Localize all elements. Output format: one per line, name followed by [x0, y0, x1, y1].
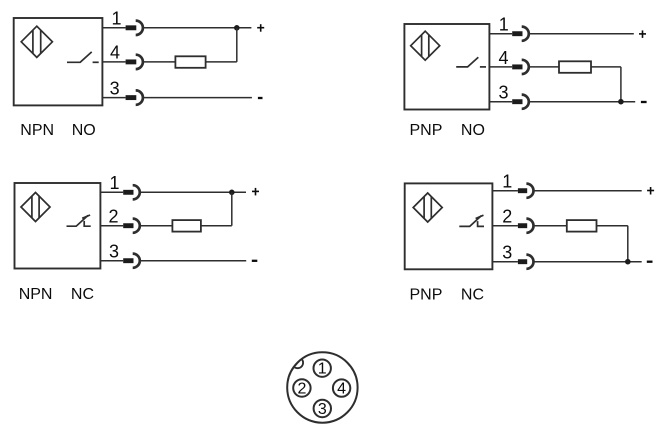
- load resistor (NPN NC): [172, 220, 201, 232]
- NO switch contact (PNP NO): [456, 57, 486, 67]
- connector plug pin1 (PNP NC): [518, 188, 527, 193]
- wire pin4 to load (PNP NO): [529, 66, 559, 68]
- svg-text:1: 1: [318, 361, 327, 378]
- svg-text:NC: NC: [461, 287, 484, 304]
- minus terminal (PNP NC): [647, 261, 653, 263]
- svg-text:3: 3: [318, 401, 327, 418]
- wire pin4 to load (NPN NO): [143, 61, 176, 63]
- wire load to vertical (PNP NO): [591, 66, 621, 68]
- wire pin1 stub (PNP NC): [492, 190, 518, 192]
- svg-text:3: 3: [498, 83, 508, 103]
- svg-text:3: 3: [502, 242, 512, 262]
- svg-text:NC: NC: [71, 286, 94, 303]
- wire pin1 to + (NPN NO): [143, 27, 252, 29]
- svg-text:3: 3: [109, 241, 119, 261]
- wire pin2 to load (PNP NC): [534, 225, 567, 227]
- connector socket arc pin4 (PNP NO): [522, 60, 529, 74]
- sensor body box (PNP NC): [405, 183, 493, 269]
- minus terminal (NPN NC): [252, 260, 257, 262]
- connector plug pin1 (NPN NO): [126, 25, 137, 30]
- connector socket arc pin1 (PNP NO): [522, 27, 529, 41]
- plus terminal (NPN NO): [257, 24, 264, 32]
- wire pin4 stub (PNP NO): [489, 66, 512, 68]
- wire pin4 stub (NPN NO): [102, 61, 125, 63]
- svg-text:3: 3: [110, 78, 120, 98]
- load resistor (NPN NO): [175, 56, 205, 68]
- connector face outer circle: [287, 352, 357, 422]
- wire pin3 stub (PNP NO): [489, 101, 512, 103]
- svg-text:NPN: NPN: [20, 122, 54, 139]
- proximity sensor diamond symbol (PNP NC): [413, 193, 442, 222]
- wire pin1 to + (NPN NC): [140, 191, 246, 193]
- svg-text:2: 2: [502, 207, 512, 227]
- connector socket arc pin1 (PNP NC): [526, 184, 533, 198]
- connector plug pin3 (PNP NO): [512, 99, 522, 104]
- sensor body box (NPN NC): [15, 183, 101, 269]
- connector pin 1 circle: [314, 360, 331, 377]
- NC switch contact (PNP NC): [459, 215, 484, 226]
- svg-text:4: 4: [337, 381, 346, 398]
- connector pin 4 circle: [333, 379, 350, 396]
- vertical wire load to - rail (PNP NO): [620, 67, 622, 102]
- svg-text:NO: NO: [72, 122, 96, 139]
- connector plug pin4 (PNP NO): [512, 64, 522, 69]
- connector plug pin3 (PNP NC): [518, 259, 527, 264]
- connector pin 2 circle: [293, 379, 310, 396]
- connector pin 3 circle: [314, 400, 331, 417]
- connector socket arc pin1 (NPN NC): [133, 185, 140, 199]
- wire pin2 stub (PNP NC): [492, 225, 518, 227]
- connector socket arc pin1 (NPN NO): [136, 21, 143, 35]
- connector socket arc pin3 (NPN NO): [136, 90, 143, 104]
- wire pin2 stub (NPN NC): [100, 225, 123, 227]
- wire load to vertical (NPN NC): [201, 225, 232, 227]
- plus terminal (NPN NC): [252, 188, 259, 196]
- svg-text:1: 1: [111, 9, 121, 29]
- connector plug pin3 (NPN NC): [123, 258, 133, 263]
- connector socket arc pin4 (NPN NO): [136, 55, 143, 69]
- svg-text:NPN: NPN: [19, 286, 53, 303]
- minus terminal (NPN NO): [258, 97, 263, 99]
- wire pin3 stub (PNP NC): [492, 261, 518, 263]
- connector plug pin3 (NPN NO): [126, 95, 137, 100]
- load resistor (PNP NO): [559, 61, 591, 73]
- connector plug pin2 (PNP NC): [518, 223, 527, 228]
- svg-text:4: 4: [498, 48, 508, 68]
- svg-text:4: 4: [110, 43, 120, 63]
- proximity sensor diamond symbol (PNP NO): [411, 31, 440, 60]
- NC switch contact (NPN NC): [67, 215, 91, 226]
- junction dot (PNP NC): [625, 259, 631, 265]
- svg-text:2: 2: [297, 380, 306, 397]
- proximity sensor diamond symbol (NPN NO): [21, 26, 52, 57]
- minus terminal (PNP NO): [641, 101, 647, 103]
- wire pin3 to - (NPN NO): [143, 97, 252, 99]
- wire pin3 stub (NPN NC): [100, 260, 123, 262]
- wire load to vertical (NPN NO): [206, 61, 237, 63]
- svg-text:NO: NO: [461, 122, 485, 139]
- connector plug pin2 (NPN NC): [123, 223, 133, 228]
- NO switch contact (NPN NO): [67, 52, 99, 62]
- wire pin1 stub (PNP NO): [489, 33, 512, 35]
- proximity sensor diamond symbol (NPN NC): [21, 193, 50, 222]
- wire pin3 to - (NPN NC): [140, 260, 246, 262]
- connector socket arc pin2 (PNP NC): [526, 219, 533, 233]
- sensor body box (NPN NO): [14, 18, 103, 105]
- plus terminal (PNP NO): [639, 30, 646, 38]
- junction dot (PNP NO): [618, 99, 624, 105]
- connector socket arc pin3 (PNP NO): [522, 95, 529, 109]
- svg-text:PNP: PNP: [410, 287, 443, 304]
- connector plug pin1 (NPN NC): [123, 190, 133, 195]
- wire pin1 to + (PNP NO): [529, 33, 634, 35]
- load resistor (PNP NC): [567, 220, 597, 232]
- connector plug pin4 (NPN NO): [126, 59, 137, 64]
- wire pin1 stub (NPN NO): [102, 27, 125, 29]
- wire pin3 to - (PNP NC): [534, 261, 642, 263]
- connector socket arc pin2 (NPN NC): [133, 219, 140, 233]
- svg-text:1: 1: [109, 173, 119, 193]
- connector socket arc pin3 (PNP NC): [526, 255, 533, 269]
- wire pin3 stub (NPN NO): [102, 97, 125, 99]
- sensor body box (PNP NO): [404, 24, 489, 110]
- vertical wire load to - rail (PNP NC): [627, 226, 629, 262]
- wire pin1 stub (NPN NC): [100, 191, 123, 193]
- connector socket arc pin3 (NPN NC): [133, 254, 140, 268]
- junction dot (NPN NC): [229, 190, 235, 196]
- connector plug pin1 (PNP NO): [512, 31, 522, 36]
- vertical wire load to + rail (NPN NC): [231, 192, 233, 225]
- wire load to vertical (PNP NC): [597, 225, 628, 227]
- junction dot (NPN NO): [234, 25, 240, 31]
- svg-text:PNP: PNP: [410, 122, 443, 139]
- svg-text:2: 2: [108, 207, 118, 227]
- wire pin1 to + (PNP NC): [534, 190, 642, 192]
- vertical wire load to + rail (NPN NO): [236, 28, 238, 62]
- plus terminal (PNP NC): [647, 187, 654, 195]
- svg-text:1: 1: [499, 15, 509, 35]
- svg-text:1: 1: [502, 171, 512, 191]
- wire pin3 to - (PNP NO): [529, 101, 635, 103]
- wire pin2 to load (NPN NC): [140, 225, 173, 227]
